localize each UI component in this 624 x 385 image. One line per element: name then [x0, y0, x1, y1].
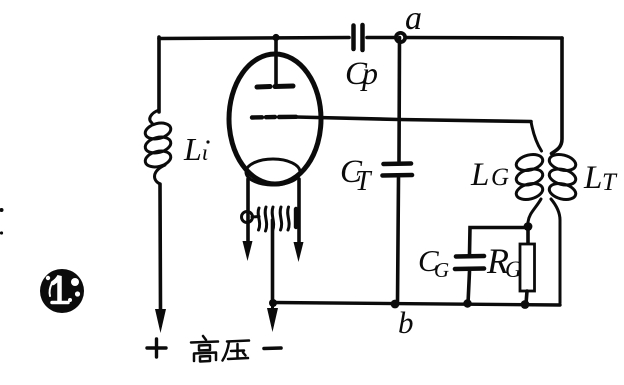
tube plate lead: [274, 38, 278, 88]
svg-text:L: L: [470, 157, 489, 193]
junction (center tap / bottom wire): [269, 299, 277, 307]
svg-text:Lι: Lι: [183, 131, 208, 167]
tube filament leg right: [297, 179, 301, 244]
tube grid dashed bar: [252, 115, 296, 120]
wire cathode center tap: [271, 220, 275, 303]
node b: [391, 300, 400, 309]
junction (plate lead / top wire): [272, 34, 279, 41]
scan speck: [0, 231, 3, 234]
wire node to CG: [470, 228, 529, 255]
svg-text:G: G: [491, 164, 509, 191]
svg-text:p: p: [360, 55, 378, 91]
svg-text:G: G: [434, 258, 449, 282]
vacuum tube envelope: [229, 54, 321, 184]
capacitor CG: [455, 256, 484, 269]
node (LG / grid leak junction): [524, 222, 533, 231]
wire left vertical bottom: [158, 184, 162, 313]
inductor LT: [548, 152, 578, 303]
svg-text:G: G: [505, 257, 522, 282]
label +: [147, 339, 166, 357]
node a: [396, 33, 405, 42]
wire left vertical top: [157, 37, 161, 112]
junction (CG / bottom wire): [463, 299, 471, 307]
svg-text:b: b: [398, 305, 414, 340]
supply + arrow: [159, 313, 162, 326]
wire right vertical: [552, 38, 563, 154]
tube plate dashed bar: [257, 86, 293, 87]
capacitor CG bottom lead: [468, 272, 470, 304]
label -: [264, 346, 281, 350]
tube filament leg left: [246, 179, 250, 243]
junction (RG / bottom wire): [521, 300, 530, 309]
svg-text:a: a: [405, 0, 422, 37]
supply - arrow: [271, 305, 274, 325]
figure number badge: [40, 269, 84, 313]
svg-text:L: L: [583, 160, 602, 196]
capacitor CT plates: [383, 164, 413, 176]
inductor LG: [515, 122, 545, 223]
scan speck: [0, 208, 4, 212]
svg-text:T: T: [602, 169, 618, 196]
tube heater: [242, 207, 297, 231]
wire top right segment: [367, 36, 562, 40]
wire top left segment: [159, 38, 349, 39]
capacitor CT bottom lead: [398, 178, 399, 303]
svg-text:T: T: [355, 166, 373, 197]
wire bottom: [273, 303, 560, 306]
tube base ellipse: [246, 159, 300, 185]
capacitor Cp: [354, 25, 363, 50]
inductor Li: [144, 110, 173, 184]
wire grid lead to LG: [296, 117, 531, 122]
resistor RG: [526, 228, 530, 244]
capacitor CT top lead: [397, 38, 401, 162]
label 高压 (high voltage): [191, 336, 249, 362]
